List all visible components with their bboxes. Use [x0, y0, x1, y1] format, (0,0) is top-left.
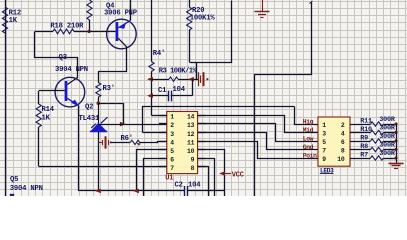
resistor R20 — [189, 0, 191, 7]
svg-text:3: 3 — [322, 131, 326, 138]
op-amp U? TL431 Q2 — [98, 103, 100, 124]
transistor Q4 3906 PNP — [107, 19, 137, 49]
svg-text:Q3: Q3 — [59, 54, 67, 62]
svg-text:10: 10 — [337, 156, 345, 163]
svg-text:TL431: TL431 — [79, 115, 100, 123]
svg-text:Hig: Hig — [303, 118, 314, 125]
svg-text:C2: C2 — [175, 181, 183, 189]
svg-text:14: 14 — [187, 114, 195, 121]
svg-text:6: 6 — [341, 139, 345, 146]
wire pin12 to LED pin7 — [198, 133, 319, 150]
svg-text:8: 8 — [341, 148, 345, 155]
svg-text:9: 9 — [191, 157, 195, 164]
svg-text:R9: R9 — [360, 134, 368, 142]
junction arrow R3 right — [188, 77, 194, 82]
svg-text:R3 100K/1%: R3 100K/1% — [159, 68, 198, 76]
transistor Q5 clipped symbol — [10, 194, 14, 196]
svg-text:4: 4 — [170, 139, 174, 146]
wire resistor common — [396, 124, 398, 163]
svg-text:Q2: Q2 — [85, 104, 93, 112]
wire Q4 collector down — [99, 47, 127, 72]
battery B2 — [98, 142, 102, 144]
svg-text:9: 9 — [322, 156, 326, 163]
transistor Q3 3904 NPN — [55, 77, 85, 107]
svg-text:4: 4 — [341, 131, 345, 138]
svg-text:R14: R14 — [42, 106, 55, 114]
svg-text:3904 NPN: 3904 NPN — [10, 185, 43, 193]
wire R14 to pin7 — [39, 166, 167, 168]
resistor R11 — [350, 124, 371, 126]
svg-text:C1: C1 — [158, 87, 167, 95]
resistor R4' — [151, 0, 153, 62]
wire pin6 feed — [144, 159, 167, 197]
wire pin5 feed — [137, 150, 167, 191]
svg-text:11: 11 — [187, 139, 195, 146]
wire into pin3 — [143, 132, 167, 134]
wire node to x123 — [99, 104, 124, 125]
svg-text:2: 2 — [170, 122, 174, 129]
resistor R12 — [2, 7, 7, 33]
wire pin14 to LED pin3 — [198, 116, 319, 133]
svg-text:Low: Low — [303, 135, 314, 142]
svg-text:300R: 300R — [379, 133, 396, 141]
svg-text:3: 3 — [170, 131, 174, 138]
node Q4col/TL431 — [97, 101, 101, 105]
svg-text:104: 104 — [188, 181, 201, 189]
junction R8 right — [394, 148, 397, 151]
wire pin10 VCC — [198, 150, 225, 197]
svg-text:13: 13 — [187, 122, 195, 129]
svg-text:R6': R6' — [121, 135, 133, 143]
op-amp U1 DIP-14 — [167, 112, 198, 174]
svg-text:8: 8 — [191, 165, 195, 172]
wire A to LED pin1 — [295, 107, 319, 125]
wire Q4 emitter up — [130, 0, 132, 21]
wire left rail x=5 — [5, 0, 7, 196]
resistor R18 — [35, 31, 53, 33]
svg-text:U1: U1 — [165, 174, 173, 182]
resistor R9 — [350, 141, 371, 143]
svg-text:1: 1 — [322, 122, 326, 129]
capacitor C2 — [184, 186, 186, 196]
wire bottom y190.9 — [78, 190, 184, 192]
wire R18 left / Q3 collector feed — [35, 32, 78, 78]
svg-text:5: 5 — [170, 148, 174, 155]
svg-text:7: 7 — [170, 165, 174, 172]
svg-text:100K1%: 100K1% — [190, 14, 216, 22]
svg-text:2: 2 — [341, 122, 345, 129]
resistor R3 — [152, 79, 170, 81]
svg-text:12: 12 — [187, 131, 195, 138]
stub top x311 — [310, 1, 313, 4]
svg-text:Mid: Mid — [303, 127, 314, 134]
svg-text:5: 5 — [322, 139, 326, 146]
svg-text:300R: 300R — [379, 124, 396, 132]
wire battery B1 top feed — [196, 62, 198, 79]
junction arrow C1 row — [147, 93, 153, 98]
wire TL431 cathode down — [98, 131, 100, 191]
svg-text:300R: 300R — [379, 141, 396, 149]
svg-text:10: 10 — [187, 148, 195, 155]
svg-text:7: 7 — [322, 148, 326, 155]
resistor R3' — [98, 71, 100, 82]
wire R20 row to x231 — [190, 1, 232, 63]
svg-text:104: 104 — [173, 86, 186, 94]
svg-text:300R: 300R — [379, 116, 396, 124]
wire pin11 to LED pin9 — [198, 142, 319, 159]
resistor R8 — [350, 149, 371, 151]
capacitor C1 — [152, 95, 169, 97]
junction R18/R17/Q4-base — [87, 30, 90, 33]
junction R9 right — [394, 139, 397, 142]
svg-text:R3': R3' — [103, 85, 115, 93]
wire into pin1 — [152, 115, 167, 117]
wire Q3 emitter down — [78, 106, 80, 191]
svg-text:R18 210R: R18 210R — [50, 23, 84, 31]
wire pin13 to LED pin5 — [198, 124, 319, 142]
junction R11 right — [394, 122, 397, 125]
resistor R10 — [350, 132, 371, 134]
junction arrow on pin2 wire — [120, 122, 126, 127]
svg-text:6: 6 — [170, 157, 174, 164]
ground top — [262, 0, 264, 11]
svg-text:Q5: Q5 — [10, 176, 18, 184]
resistor R6' — [111, 142, 131, 144]
svg-text:Gnd: Gnd — [303, 144, 314, 151]
junction R7 right — [394, 156, 397, 159]
resistor R14 — [38, 91, 40, 104]
wire x311 down to x254 — [255, 3, 312, 197]
svg-text:1K: 1K — [42, 115, 51, 123]
svg-text:Poin: Poin — [303, 152, 317, 159]
junction arrow TL431 bottom — [95, 189, 101, 194]
svg-text:R10: R10 — [360, 126, 372, 134]
svg-text:R8: R8 — [360, 143, 368, 151]
svg-text:1K: 1K — [9, 17, 18, 25]
junction arrow R3 row — [147, 77, 153, 82]
wire TL431 to pin2 — [98, 124, 167, 126]
wire Q4 base — [89, 31, 116, 33]
svg-text:300R: 300R — [379, 150, 396, 158]
svg-text:R11: R11 — [360, 117, 372, 125]
svg-text:3906 PNP: 3906 PNP — [104, 10, 138, 18]
svg-text:1: 1 — [170, 114, 174, 121]
wire pin8 down — [198, 167, 209, 197]
resistor R17 top — [87, 0, 92, 20]
wire pin9 down — [198, 159, 215, 197]
resistor R7 — [350, 158, 371, 160]
battery B1 — [198, 72, 200, 86]
svg-text:R7: R7 — [360, 151, 368, 159]
svg-text:R4': R4' — [153, 50, 165, 58]
ground right — [389, 163, 404, 165]
svg-text:3904 NPN: 3904 NPN — [55, 66, 88, 74]
power VCC — [219, 171, 225, 176]
wire node A y106.7 — [143, 107, 295, 133]
junction arrow pin5 bottom — [133, 189, 139, 194]
junction R10 right — [394, 131, 397, 134]
wire Q3 base — [39, 90, 65, 92]
connector LED3 — [318, 117, 350, 166]
svg-text:VCC: VCC — [232, 171, 244, 179]
